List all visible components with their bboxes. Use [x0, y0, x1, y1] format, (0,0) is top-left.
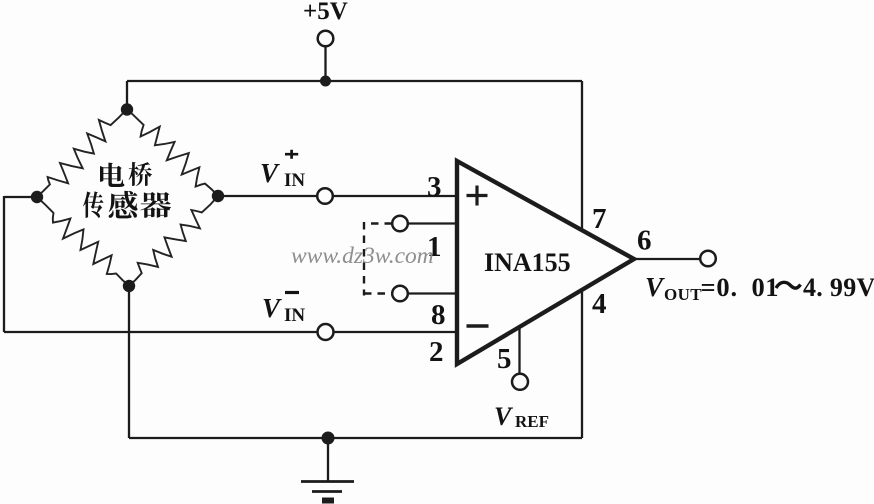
- label bridge sensor chinese line1 电桥: [100, 162, 152, 187]
- wire pin 8 lead: [408, 292, 458, 294]
- wire top rail +5V: [127, 80, 582, 82]
- label bridge sensor chinese line2 传感器: [83, 191, 171, 219]
- svg-text:5: 5: [497, 343, 512, 375]
- svg-text:www.dz3w.com: www.dz3w.com: [291, 243, 434, 269]
- resistor bridge arm R4 bottom-right: [129, 196, 218, 286]
- op-amp noninverting + symbol: [467, 186, 488, 206]
- op-amp U1 INA155 triangle: [457, 161, 634, 364]
- svg-text:+5V: +5V: [303, 0, 348, 25]
- wire feedback right vertical to pin 7: [581, 81, 583, 231]
- node bridge right: [212, 190, 224, 202]
- wire VIN+ rail bridge right node to pin 3: [218, 195, 458, 197]
- svg-text:6: 6: [637, 225, 652, 257]
- terminal circle pin 1: [392, 216, 408, 232]
- resistor bridge arm R2 top-right: [127, 109, 218, 196]
- svg-text:OUT: OUT: [664, 285, 702, 304]
- wire bridge bottom drop: [128, 286, 130, 438]
- wire VIN- rail to pin 2: [4, 331, 458, 333]
- svg-text:4. 99V: 4. 99V: [803, 273, 874, 302]
- wire left vertical: [3, 196, 5, 332]
- resistor bridge arm R1 top-left: [37, 109, 127, 197]
- svg-text:=0.: =0.: [701, 272, 738, 302]
- svg-text:3: 3: [427, 171, 442, 203]
- wire +5V terminal stub: [324, 47, 326, 82]
- svg-text:REF: REF: [515, 412, 549, 431]
- svg-text:V: V: [494, 402, 514, 431]
- svg-text:IN: IN: [284, 170, 305, 191]
- svg-text:7: 7: [592, 203, 607, 235]
- resistor bridge arm R3 bottom-left: [37, 197, 129, 286]
- wire output pin 6 lead: [634, 258, 700, 260]
- node bridge bottom: [123, 280, 135, 292]
- svg-text:V: V: [260, 158, 280, 188]
- svg-text:V: V: [262, 293, 282, 323]
- dashed link pins 1-8: [364, 222, 392, 296]
- junction dot at +5V rail: [320, 76, 331, 87]
- terminal circle VIN+: [317, 188, 333, 204]
- terminal circle output pin 6: [700, 251, 716, 267]
- wire bottom rail: [129, 437, 582, 439]
- svg-text:INA155: INA155: [484, 248, 571, 277]
- terminal circle VIN-: [318, 324, 334, 340]
- svg-text:IN: IN: [284, 305, 305, 326]
- svg-text:4: 4: [592, 288, 607, 320]
- svg-text:8: 8: [431, 299, 446, 331]
- wire pin 1 lead: [408, 222, 458, 224]
- ground: [301, 438, 354, 501]
- node bridge left: [31, 191, 43, 203]
- svg-text:V: V: [645, 272, 665, 302]
- wire left drop from top rail to bridge top: [126, 81, 128, 110]
- wire pin 5 stub: [518, 328, 520, 374]
- svg-text:2: 2: [429, 336, 444, 368]
- junction dot at ground rail: [322, 432, 335, 445]
- op-amp inverting - symbol: [467, 324, 489, 327]
- terminal circle pin 8: [392, 286, 408, 302]
- terminal circle +5V: [318, 31, 334, 47]
- node bridge top: [121, 103, 133, 115]
- wire bridge left node stub: [4, 196, 37, 198]
- terminal circle VREF pin 5: [512, 374, 528, 390]
- wire pin 4 vertical to bottom rail: [581, 290, 583, 438]
